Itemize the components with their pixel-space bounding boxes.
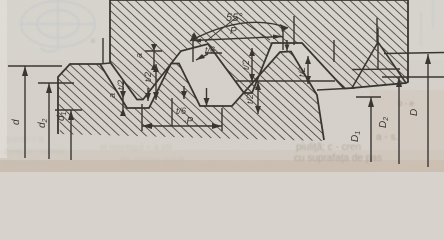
svg-text:b - e: b - e bbox=[398, 99, 415, 108]
svg-text:t/6: t/6 bbox=[205, 45, 215, 55]
D1 dimension line bbox=[356, 96, 381, 98]
svg-text:55°: 55° bbox=[226, 12, 243, 24]
svg-text:de pasare şurub: de pasare şurub bbox=[120, 155, 185, 165]
svg-text:cu suprafaţa de pas: cu suprafaţa de pas bbox=[294, 153, 382, 164]
t/2 dim #1 (x=156) bbox=[155, 64, 157, 100]
crest extension line bbox=[100, 63, 110, 64]
svg-text:a: a bbox=[134, 53, 144, 58]
t/6 leader (top) bbox=[196, 54, 208, 60]
svg-text:a: a bbox=[107, 93, 117, 98]
d dimension line bbox=[8, 65, 62, 67]
tooth tip flat line bbox=[317, 88, 355, 90]
D dimension line bbox=[384, 53, 444, 54]
D2 arrow + stem bbox=[398, 77, 400, 164]
svg-text:d: d bbox=[11, 119, 22, 125]
svg-text:-P: -P bbox=[183, 116, 193, 127]
extension line x334 bbox=[333, 40, 335, 62]
ghost bleed-through figure top-left bbox=[20, 0, 96, 52]
D1 arrow + stem bbox=[370, 97, 372, 162]
pitch line (right half) bbox=[236, 80, 335, 82]
apex vertical bbox=[377, 28, 379, 70]
svg-text:t/2: t/2 bbox=[245, 94, 255, 104]
svg-text:t/6: t/6 bbox=[176, 106, 186, 116]
ghost smudge bbox=[91, 39, 96, 44]
svg-text:t/2: t/2 bbox=[241, 60, 251, 70]
svg-text:P: P bbox=[230, 26, 237, 37]
svg-text:t/2: t/2 bbox=[297, 67, 307, 77]
svg-text:piuliţă; c - cren: piuliţă; c - cren bbox=[296, 142, 361, 153]
line across V bbox=[352, 68, 400, 71]
bolt body (hatched, bottom) bbox=[58, 52, 325, 142]
small arrow at valley-2 root bbox=[206, 88, 208, 106]
D arrow + stem bbox=[427, 54, 429, 167]
d dimension arrow + stem bbox=[24, 66, 26, 158]
55 degree arc bbox=[190, 22, 288, 41]
d1 dimension line bbox=[55, 109, 82, 111]
d1 arrow + stem bbox=[70, 110, 72, 160]
small root arrows bbox=[147, 88, 149, 101]
d2 arrow + stem bbox=[48, 83, 50, 159]
t/2 dim #3 (x=258) bbox=[257, 82, 259, 114]
ghost text bottom bbox=[4, 99, 415, 168]
P dimension (top) bbox=[193, 37, 283, 41]
paper background bbox=[0, 0, 444, 172]
theoretical sharp V (thin lines) bbox=[205, 17, 270, 42]
D2 dimension line bbox=[382, 76, 444, 78]
svg-text:t/2: t/2 bbox=[143, 72, 153, 82]
t/2 dim #4 (x=308) bbox=[307, 56, 309, 84]
svg-text:el montajul = a stil: el montajul = a stil bbox=[100, 142, 172, 152]
main ink drawing bbox=[8, 0, 444, 167]
svg-text:zimţi; b - numiri: zimţi; b - numiri bbox=[4, 146, 65, 156]
extension line near tooth 1 bbox=[102, 38, 104, 64]
svg-text:D: D bbox=[409, 109, 420, 116]
P extension lines bbox=[192, 34, 194, 62]
d2 dimension line bbox=[38, 82, 74, 84]
right V groove outline bbox=[352, 42, 406, 88]
tiny crest gap arrow (tooth 286) bbox=[286, 40, 288, 51]
nut body (hatched, top) bbox=[110, 0, 408, 100]
a clearance dim (left valley) bbox=[122, 80, 124, 112]
svg-text:a - s.: a - s. bbox=[376, 132, 398, 143]
svg-text:şte; alezat 1 - mm: şte; alezat 1 - mm bbox=[4, 158, 76, 168]
svg-text:t/2: t/2 bbox=[116, 80, 126, 90]
a clearance dim (tooth2 crest) bbox=[153, 44, 155, 70]
t/2 dim #2 (x=252) bbox=[251, 48, 253, 82]
P dimension (bottom) bbox=[142, 125, 222, 127]
ghost lines top-right bbox=[421, 0, 433, 46]
